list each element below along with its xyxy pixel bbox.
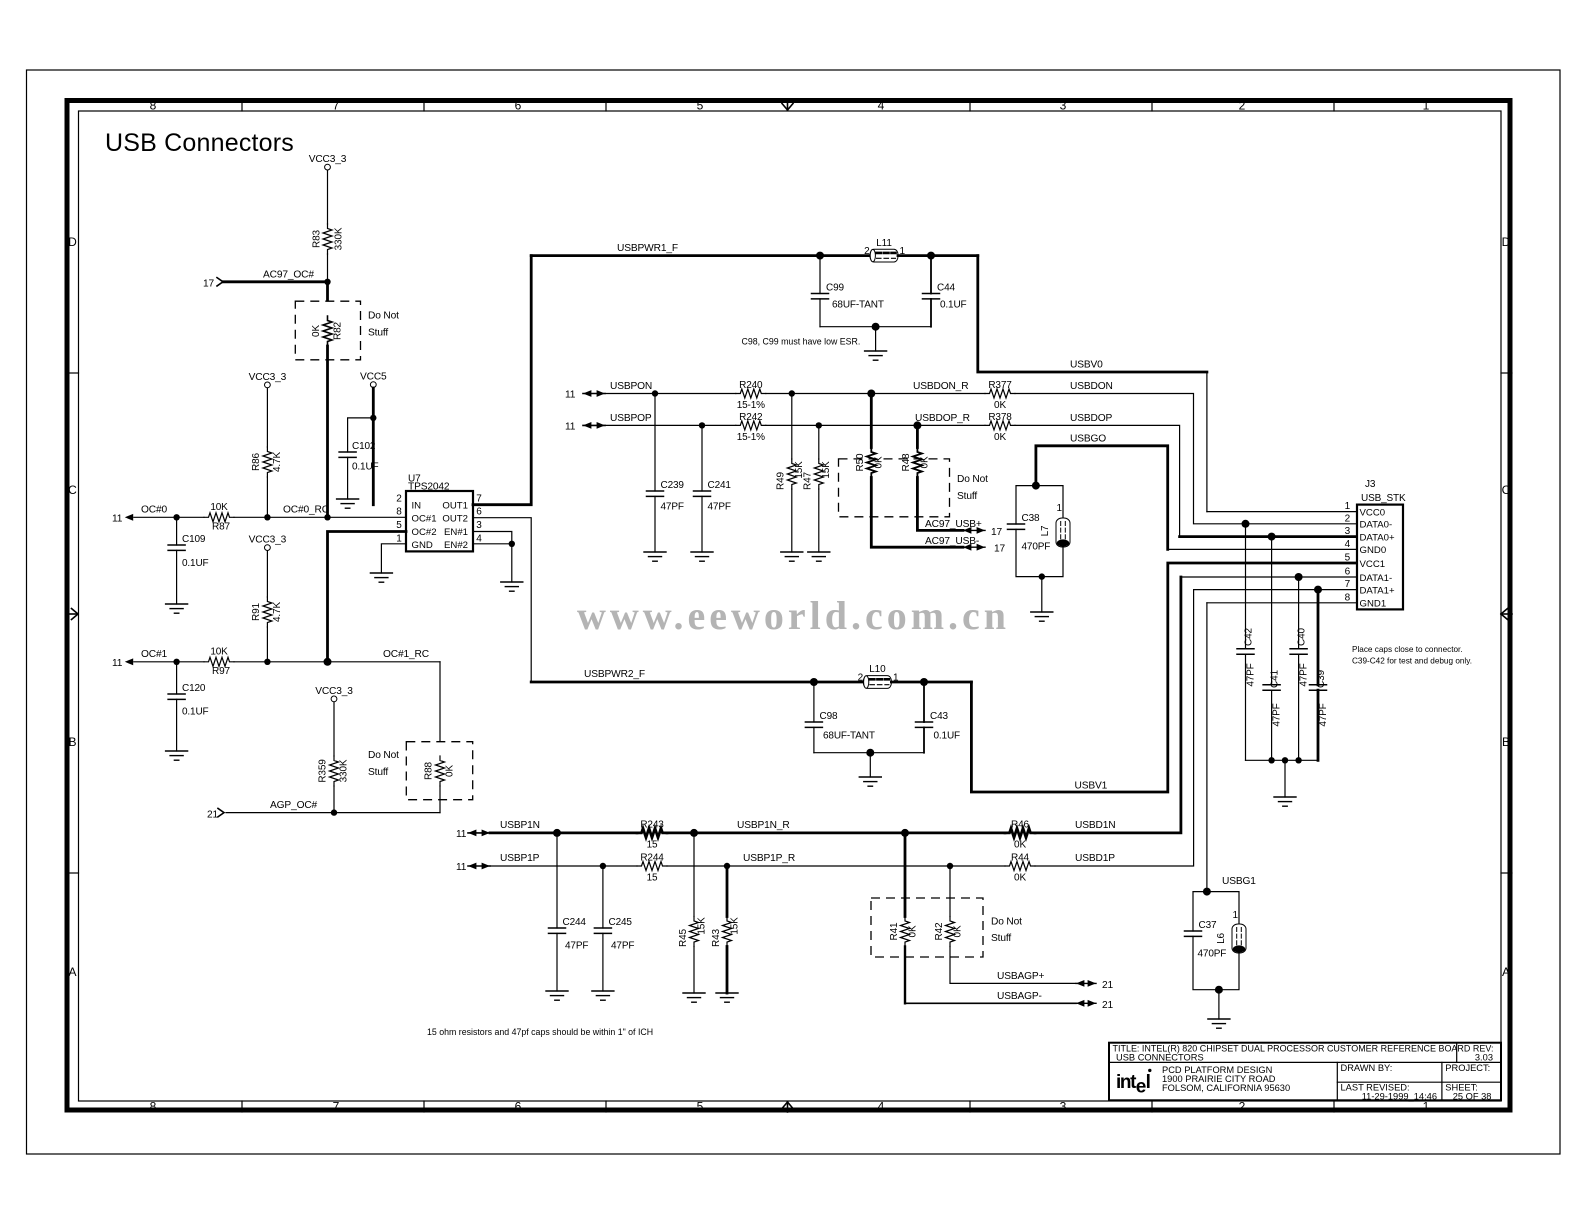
wire OC#1_RC down to R88 xyxy=(439,662,441,759)
svg-text:C99: C99 xyxy=(826,283,844,294)
svg-text:Do Not: Do Not xyxy=(957,474,988,485)
ground (C37) xyxy=(1208,1019,1230,1028)
capacitor C40 xyxy=(1290,649,1307,654)
svg-text:R240: R240 xyxy=(739,380,763,391)
inductor L7 xyxy=(1056,518,1070,547)
capacitor C99 xyxy=(812,294,829,299)
inductor L6 xyxy=(1232,924,1246,953)
svg-text:4: 4 xyxy=(1345,539,1351,550)
junction USBPWR1_F / C99 xyxy=(816,252,824,260)
svg-text:6: 6 xyxy=(476,507,482,518)
svg-text:A: A xyxy=(1502,965,1510,979)
capacitor C239 xyxy=(647,491,664,496)
wire C99 bottom xyxy=(819,299,821,327)
thick border frame xyxy=(67,101,1510,1111)
wire R50 to AC97_USB- xyxy=(871,478,963,548)
capacitor C241 xyxy=(694,491,711,496)
svg-text:R243: R243 xyxy=(640,819,664,830)
power symbol VCC5 xyxy=(360,372,387,388)
wire R87 to OC#0_RC node xyxy=(234,516,406,518)
svg-text:21: 21 xyxy=(207,809,219,820)
svg-text:47PF: 47PF xyxy=(1272,703,1283,726)
wire C102 to ground xyxy=(347,457,349,499)
svg-text:4.7K: 4.7K xyxy=(272,602,283,622)
junction USBPOP / R47 xyxy=(816,422,822,428)
resistor R243 xyxy=(637,828,667,837)
svg-text:4.7K: 4.7K xyxy=(272,452,283,472)
wire USBPOP seg1 xyxy=(605,424,736,426)
wire OC#0 to C109 xyxy=(176,517,178,545)
ground (C39-C42) xyxy=(1274,797,1296,806)
wire R48 top xyxy=(916,425,919,447)
svg-text:Stuff: Stuff xyxy=(368,328,388,339)
capacitor C39 xyxy=(1310,685,1327,690)
wire R41 top xyxy=(904,833,907,917)
svg-text:DATA1-: DATA1- xyxy=(1360,573,1393,584)
wire C37 top rail xyxy=(1193,892,1239,931)
capacitor C98 xyxy=(805,722,822,727)
wire C120 to ground xyxy=(176,699,178,751)
wire VCC3_3 to R86 xyxy=(266,388,268,447)
wire C44 top xyxy=(930,256,932,294)
junction OC#1 / C120 xyxy=(173,659,179,665)
border tick xyxy=(969,100,971,111)
resistor R47 xyxy=(814,459,823,489)
svg-text:USBDOP_R: USBDOP_R xyxy=(915,413,970,424)
svg-text:11: 11 xyxy=(456,862,467,873)
svg-text:C43: C43 xyxy=(930,711,948,722)
svg-text:J3: J3 xyxy=(1365,479,1376,490)
wire C39 column bottom xyxy=(1317,690,1320,760)
svg-text:1: 1 xyxy=(1345,501,1351,512)
power symbol VCC3_3 (R86 pullup) xyxy=(249,372,287,388)
resistor R87 xyxy=(204,513,234,522)
wire rail to ground xyxy=(875,327,877,351)
svg-text:R97: R97 xyxy=(212,666,230,677)
wire U7 pin1 GND xyxy=(381,544,406,573)
svg-text:GND1: GND1 xyxy=(1360,599,1387,610)
svg-text:0K: 0K xyxy=(953,925,964,937)
svg-text:8: 8 xyxy=(1345,592,1351,603)
svg-text:TPS2042: TPS2042 xyxy=(408,482,450,493)
wire C40 column bottom xyxy=(1298,654,1300,760)
title block frame xyxy=(1109,1043,1501,1101)
ground (C38) xyxy=(1031,612,1053,621)
svg-text:0.1UF: 0.1UF xyxy=(934,731,961,742)
junction OC#0_RC node xyxy=(324,514,330,520)
capacitor C44 xyxy=(923,294,940,299)
ground (EN#1/EN#2) xyxy=(501,582,523,591)
wire C38 to ground xyxy=(1041,577,1043,612)
svg-text:C42: C42 xyxy=(1244,627,1255,645)
wire U7 pin6 OUT2 to USBPWR2_F xyxy=(473,518,531,682)
svg-text:5: 5 xyxy=(396,520,402,531)
resistor R91 xyxy=(263,597,272,627)
svg-text:2: 2 xyxy=(858,673,864,684)
svg-text:OUT2: OUT2 xyxy=(442,513,468,524)
svg-text:OC#0_RC: OC#0_RC xyxy=(283,504,329,515)
svg-text:3: 3 xyxy=(1060,99,1067,113)
svg-text:15: 15 xyxy=(647,873,658,884)
wire C241 to ground xyxy=(701,496,703,552)
wire USBPON seg1 xyxy=(605,393,736,395)
resistor R41 xyxy=(901,917,910,947)
svg-text:330K: 330K xyxy=(334,227,345,250)
svg-text:4: 4 xyxy=(878,1100,885,1114)
wire USBD1P to J3 pin7 xyxy=(1035,590,1194,866)
wire C43 top xyxy=(923,682,925,722)
svg-text:R45: R45 xyxy=(678,928,689,946)
wire R42 to USBAGP+ xyxy=(950,947,1076,984)
resistor R88 xyxy=(436,756,445,786)
svg-text:USBPOP: USBPOP xyxy=(610,413,652,424)
wire EN to ground xyxy=(511,544,513,582)
svg-text:FOLSOM, CALIFORNIA 95630: FOLSOM, CALIFORNIA 95630 xyxy=(1162,1083,1290,1093)
junction C37 ground xyxy=(1215,986,1223,994)
off-page connector 11 USBPON xyxy=(565,390,605,401)
wire USBPWR2_F xyxy=(531,681,863,684)
wire R88 to AGP_OC# xyxy=(439,786,441,813)
junction USBPOP / R48 xyxy=(913,421,921,429)
svg-text:VCC5: VCC5 xyxy=(360,372,387,383)
svg-text:R48: R48 xyxy=(901,453,912,471)
wire C239 top xyxy=(654,394,656,492)
wire C42 column top xyxy=(1245,524,1247,649)
svg-text:47PF: 47PF xyxy=(1318,703,1329,726)
wire R42 top xyxy=(949,866,951,917)
svg-text:0K: 0K xyxy=(994,400,1006,411)
ground (C98/C43) xyxy=(859,777,881,786)
svg-text:l: l xyxy=(1146,1072,1151,1093)
svg-text:R43: R43 xyxy=(711,928,722,946)
svg-text:68UF-TANT: 68UF-TANT xyxy=(832,300,884,311)
title block dividers xyxy=(1109,1043,1501,1101)
svg-text:GND: GND xyxy=(412,540,433,551)
svg-text:DATA0-: DATA0- xyxy=(1360,520,1393,531)
do-not-stuff box (R50,R48) xyxy=(839,459,950,517)
wire R97 to OC#1_RC corner xyxy=(234,661,440,663)
svg-text:C109: C109 xyxy=(182,534,206,545)
svg-text:2: 2 xyxy=(396,494,402,505)
svg-text:0.1UF: 0.1UF xyxy=(940,300,967,311)
wire L11 to junction xyxy=(898,254,978,257)
border tick xyxy=(423,100,425,111)
wire caps rail to ground xyxy=(1284,760,1286,797)
svg-text:int: int xyxy=(1116,1072,1137,1093)
ground (R45) xyxy=(683,993,705,1002)
svg-text:USBP1P: USBP1P xyxy=(500,853,540,864)
svg-text:USBP1P_R: USBP1P_R xyxy=(743,853,795,864)
wire USBP1N seg1 xyxy=(490,832,637,835)
svg-text:C98, C99 must have low ESR.: C98, C99 must have low ESR. xyxy=(742,337,861,347)
svg-text:R83: R83 xyxy=(312,229,323,247)
wire node to R82 xyxy=(326,282,329,316)
capacitor C244 xyxy=(549,928,566,933)
svg-text:2: 2 xyxy=(864,246,870,257)
bottom center marker arrow xyxy=(782,1102,793,1112)
svg-text:R50: R50 xyxy=(855,453,866,471)
resistor R49 xyxy=(787,459,796,489)
wire GND1 to USBG1 xyxy=(1206,603,1208,892)
svg-text:15K: 15K xyxy=(730,917,741,935)
wire DATA0+ row xyxy=(1180,535,1357,538)
svg-text:470PF: 470PF xyxy=(1198,949,1227,960)
svg-text:21: 21 xyxy=(1102,980,1114,991)
wire USBDON to J3 pin2 xyxy=(1015,394,1357,524)
ground (U7 GND) xyxy=(370,573,392,582)
svg-text:C245: C245 xyxy=(609,917,633,928)
connector J3 USB_STK body xyxy=(1357,505,1403,610)
junction DATA1- / C40 xyxy=(1295,573,1303,581)
svg-text:25 OF 38: 25 OF 38 xyxy=(1453,1091,1492,1101)
svg-text:USBAGP+: USBAGP+ xyxy=(997,971,1045,982)
wire C98 top xyxy=(813,682,815,722)
right center marker arrow xyxy=(1501,609,1512,620)
svg-text:1: 1 xyxy=(1057,503,1063,514)
junction USBPWR2_F / C43 xyxy=(920,678,928,686)
power symbol VCC3_3 (R91 pullup) xyxy=(249,535,287,551)
wire R49 top xyxy=(791,394,793,460)
svg-text:11: 11 xyxy=(112,514,123,525)
svg-text:R44: R44 xyxy=(1011,853,1029,864)
svg-text:15K: 15K xyxy=(821,461,832,479)
resistor R83 xyxy=(323,224,332,254)
do-not-stuff box (R88) xyxy=(406,742,472,800)
wire USBP1N_R xyxy=(667,832,1005,835)
resistor R44 xyxy=(1005,862,1035,871)
svg-text:PROJECT:: PROJECT: xyxy=(1445,1063,1490,1073)
svg-text:USBP1N_R: USBP1N_R xyxy=(737,820,790,831)
wire R49 to ground xyxy=(791,489,793,552)
wire C244 to ground xyxy=(556,933,558,991)
svg-text:0K: 0K xyxy=(920,456,931,468)
resistor R242 xyxy=(736,421,766,430)
svg-text:Place caps close to connector.: Place caps close to connector. xyxy=(1352,645,1463,654)
svg-text:5: 5 xyxy=(697,1100,704,1114)
svg-text:C241: C241 xyxy=(708,480,732,491)
svg-text:L10: L10 xyxy=(869,664,886,675)
left center marker arrow xyxy=(67,609,78,620)
junction USBP1N / C244 xyxy=(553,829,561,837)
wire C43 bottom xyxy=(923,727,925,752)
svg-text:15 ohm resistors and 47pf caps: 15 ohm resistors and 47pf caps should be… xyxy=(427,1027,653,1037)
svg-text:Stuff: Stuff xyxy=(991,933,1011,944)
wire VCC3_3 to R359 xyxy=(333,702,335,756)
svg-text:1: 1 xyxy=(1423,1100,1430,1114)
wire R47 top xyxy=(818,425,820,459)
junction rail stem xyxy=(1282,757,1288,763)
inductor L10 xyxy=(863,676,891,689)
wire VCC0 row xyxy=(1207,511,1357,513)
svg-text:C: C xyxy=(1502,483,1511,497)
wire C241 top xyxy=(701,425,703,491)
svg-text:USBAGP-: USBAGP- xyxy=(997,991,1042,1002)
svg-text:L11: L11 xyxy=(876,238,892,249)
svg-text:USBD1P: USBD1P xyxy=(1075,853,1115,864)
svg-text:B: B xyxy=(68,735,76,749)
svg-text:VCC3_3: VCC3_3 xyxy=(315,686,353,697)
svg-text:OC#0: OC#0 xyxy=(141,504,167,515)
svg-text:0.1UF: 0.1UF xyxy=(182,558,209,569)
wire OC#1 left segment xyxy=(134,661,204,663)
junction OC#0 / C109 xyxy=(173,514,179,520)
wire USBPON seg2 USBDON_R xyxy=(766,393,985,395)
svg-text:IN: IN xyxy=(412,500,422,511)
power symbol VCC3_3 (R83 pullup) xyxy=(309,154,347,170)
border tick xyxy=(241,100,243,111)
border tick xyxy=(605,100,607,111)
wire OC#0 left segment xyxy=(134,516,204,518)
ground (R47) xyxy=(808,552,830,561)
junction USBG1 / C37 xyxy=(1203,888,1211,896)
svg-text:3: 3 xyxy=(1345,526,1351,537)
wire R82 to OC#0_RC node xyxy=(326,346,329,517)
off-page connector 21 AGP_OC# xyxy=(207,808,224,820)
off-page connector 21 USBAGP- xyxy=(1076,1000,1114,1011)
wire R50 top xyxy=(870,394,873,448)
svg-text:B: B xyxy=(1502,735,1510,749)
ground (C102) xyxy=(337,499,359,508)
svg-text:C239: C239 xyxy=(661,480,685,491)
svg-text:VCC1: VCC1 xyxy=(1360,559,1386,570)
svg-text:USBG1: USBG1 xyxy=(1222,876,1256,887)
svg-text:USBPWR1_F: USBPWR1_F xyxy=(617,243,678,254)
svg-text:8: 8 xyxy=(396,507,402,518)
resistor R378 xyxy=(985,421,1015,430)
svg-text:C120: C120 xyxy=(182,683,206,694)
svg-text:C39-C42 for test and debug onl: C39-C42 for test and debug only. xyxy=(1352,657,1472,666)
wire U7 pin5 OC#2 to OC#1_RC xyxy=(328,532,407,662)
junction USBPON / R49 xyxy=(789,390,795,396)
svg-text:10K: 10K xyxy=(210,646,228,657)
wire USBV0 xyxy=(978,256,1207,372)
top center marker arrow xyxy=(782,100,793,110)
wire USBP1P_R xyxy=(667,865,1005,867)
svg-text:USB CONNECTORS: USB CONNECTORS xyxy=(1116,1052,1204,1062)
junction USBP1N / R45 xyxy=(690,829,698,837)
svg-text:68UF-TANT: 68UF-TANT xyxy=(823,731,875,742)
off-page connector 21 USBAGP+ xyxy=(1076,980,1114,991)
wire C44 bottom xyxy=(930,299,932,327)
capacitor C37 xyxy=(1185,931,1202,936)
junction USBGO / C38 xyxy=(1032,482,1040,490)
resistor R48 xyxy=(913,448,922,478)
svg-text:8: 8 xyxy=(150,1100,157,1114)
junction USBPON / C239 xyxy=(652,390,658,396)
svg-text:3: 3 xyxy=(1060,1100,1067,1114)
svg-text:6: 6 xyxy=(1345,567,1351,578)
ground (R49) xyxy=(781,552,803,561)
wire VCC3_3 to R91 xyxy=(266,551,268,597)
border tick xyxy=(67,872,79,874)
svg-text:5: 5 xyxy=(697,99,704,113)
svg-text:47PF: 47PF xyxy=(1246,663,1257,686)
wire C99 top xyxy=(819,256,821,294)
wire GND0 row xyxy=(1168,548,1357,550)
wire GND1 row xyxy=(1207,602,1357,604)
junction USBPWR2_F / C98 xyxy=(810,678,818,686)
svg-text:VCC3_3: VCC3_3 xyxy=(249,535,287,546)
svg-text:AGP_OC#: AGP_OC# xyxy=(270,800,318,811)
svg-text:Stuff: Stuff xyxy=(957,491,977,502)
svg-text:R91: R91 xyxy=(251,602,262,620)
wire USBDOP to J3 pin3 corner xyxy=(1015,425,1180,536)
svg-text:11: 11 xyxy=(456,829,467,840)
border tick xyxy=(1333,100,1335,111)
wire USBPWR1_F xyxy=(531,254,870,257)
svg-text:1: 1 xyxy=(396,534,402,545)
ground (C245) xyxy=(592,991,614,1000)
junction AC97_OC# / R82 xyxy=(324,279,330,285)
wire C239 to ground xyxy=(654,496,656,552)
off-page connector 17 AC97_USB+ xyxy=(963,527,1003,538)
wire R83 to AC97_OC# node xyxy=(327,254,329,282)
wire U7 pin7 OUT1 to USBPWR1_F xyxy=(473,256,531,505)
off-page connector 11 USBP1N xyxy=(456,829,490,840)
do-not-stuff box (R82) xyxy=(295,301,360,360)
junction USBP1N / R41 xyxy=(901,829,909,837)
off-page connector 17 AC97_USB- xyxy=(963,544,1006,555)
svg-text:EN#1: EN#1 xyxy=(444,527,468,538)
ground (C120) xyxy=(166,751,188,760)
svg-text:4: 4 xyxy=(476,534,482,545)
junction USBP1P / R43 xyxy=(724,863,730,869)
wire USBP1P seg1 xyxy=(490,865,637,867)
junction AGP_OC# / R359 xyxy=(331,809,337,815)
junction OC#1_RC node xyxy=(324,658,332,666)
svg-text:R378: R378 xyxy=(988,412,1012,423)
svg-text:R49: R49 xyxy=(776,471,787,489)
junction DATA0+ / C41 xyxy=(1268,533,1276,541)
resistor R97 xyxy=(204,657,234,666)
svg-text:R242: R242 xyxy=(739,412,763,423)
wire USBV1 xyxy=(971,563,1357,792)
wire DATA1- row xyxy=(1181,576,1357,578)
ground (R43) xyxy=(716,993,738,1002)
svg-text:2: 2 xyxy=(1239,99,1246,113)
svg-text:AC97_USB-: AC97_USB- xyxy=(925,536,979,547)
wire USBGO xyxy=(1036,446,1168,550)
svg-text:EN#2: EN#2 xyxy=(444,540,468,551)
junction EN#1/EN#2 xyxy=(509,541,515,547)
wire R86 to OC#0 row xyxy=(266,477,268,517)
off-page connector 11 USBPOP xyxy=(565,422,605,433)
resistor R86 xyxy=(263,447,272,477)
svg-text:11: 11 xyxy=(112,658,123,669)
resistor R50 xyxy=(867,448,876,478)
wire C245 top xyxy=(602,866,604,928)
svg-text:8: 8 xyxy=(150,99,157,113)
wire R45 to ground xyxy=(693,947,695,994)
svg-text:0.1UF: 0.1UF xyxy=(182,707,209,718)
junction DATA0- / C42 xyxy=(1242,520,1250,528)
capacitor C41 xyxy=(1263,685,1280,690)
svg-text:15-1%: 15-1% xyxy=(737,432,765,443)
wire C38 top rail xyxy=(1016,486,1063,524)
ground (C99/C44) xyxy=(865,351,887,360)
svg-text:3.03: 3.03 xyxy=(1475,1052,1493,1062)
wire AC97_OC# xyxy=(223,280,328,283)
svg-text:VCC3_3: VCC3_3 xyxy=(309,154,347,165)
wire R48 to AC97_USB+ xyxy=(917,478,963,531)
svg-text:3: 3 xyxy=(476,520,482,531)
svg-text:USB Connectors: USB Connectors xyxy=(105,129,294,157)
op-amp U7 TPS2042 body xyxy=(406,491,473,551)
wire OC#1 to C120 xyxy=(176,662,178,694)
junction USBPOP / C241 xyxy=(699,422,705,428)
wire rail to ground 2 xyxy=(869,753,871,777)
svg-text:USBD1N: USBD1N xyxy=(1075,820,1115,831)
